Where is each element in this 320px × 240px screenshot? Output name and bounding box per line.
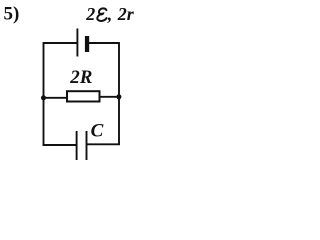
wire: battery to top-right corner xyxy=(89,42,119,44)
svg-text:2R: 2R xyxy=(69,67,92,88)
capacitor right plate xyxy=(86,131,88,160)
battery thick short plate xyxy=(85,36,89,52)
svg-text:5): 5) xyxy=(4,4,20,25)
svg-text:2: 2 xyxy=(85,4,95,24)
wire: middle branch right xyxy=(100,96,120,98)
svg-text:2r: 2r xyxy=(117,4,135,24)
svg-text:,: , xyxy=(107,4,113,24)
script capital E (EMF symbol) xyxy=(97,8,106,21)
capacitor left plate xyxy=(76,131,78,160)
svg-text:C: C xyxy=(91,121,104,142)
wire: capacitor to bottom-right corner xyxy=(87,143,121,145)
junction node left xyxy=(41,95,46,100)
wire: top-left horizontal to battery xyxy=(44,42,78,44)
resistor 2R box xyxy=(67,91,100,101)
junction node right xyxy=(116,94,121,99)
wire: right vertical xyxy=(118,42,120,145)
battery value label 2E, 2r xyxy=(85,4,134,24)
wire: bottom-left horizontal to capacitor xyxy=(43,144,77,146)
wire: left vertical xyxy=(43,42,45,146)
wire: middle branch left xyxy=(44,97,68,99)
battery long plate xyxy=(76,29,78,57)
